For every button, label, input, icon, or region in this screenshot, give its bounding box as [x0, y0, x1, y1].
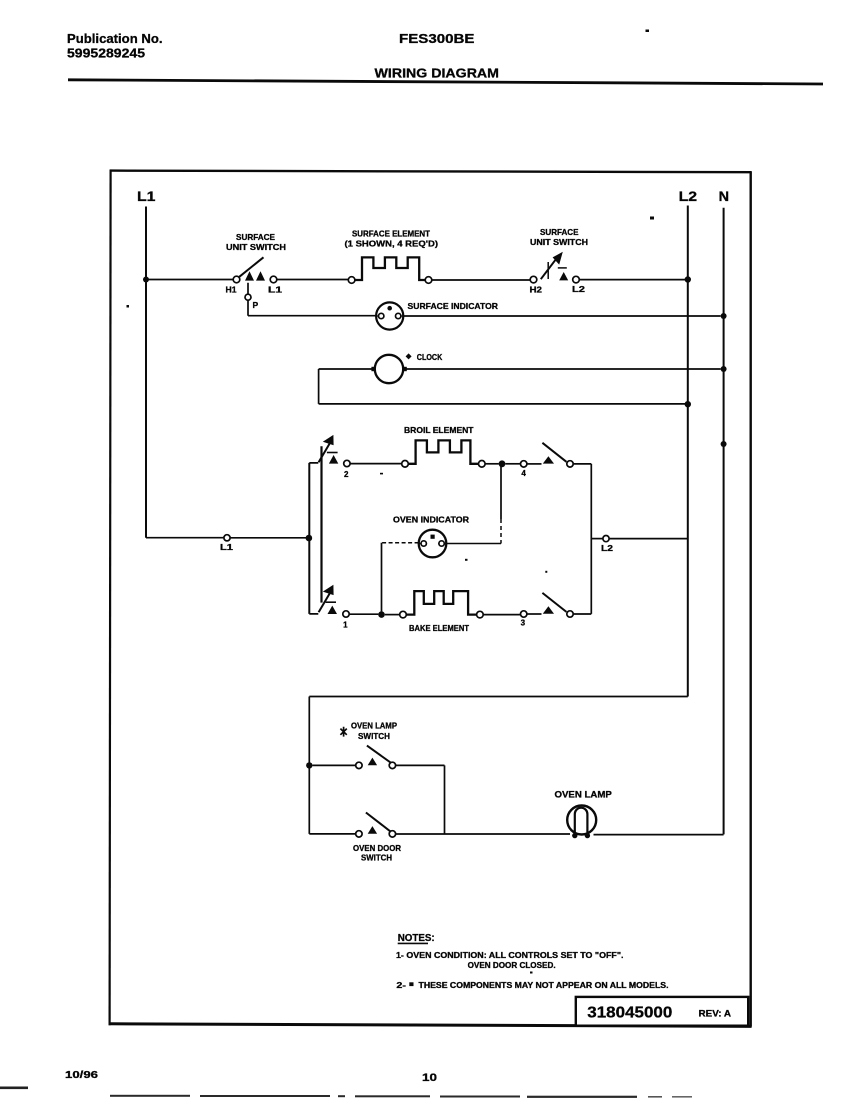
svg-text:Publication No.: Publication No.	[67, 31, 163, 46]
svg-text:10: 10	[422, 1072, 437, 1084]
svg-text:BAKE ELEMENT: BAKE ELEMENT	[409, 623, 470, 633]
svg-text:UNIT SWITCH: UNIT SWITCH	[530, 237, 588, 247]
svg-text:H1: H1	[226, 285, 238, 294]
svg-text:4: 4	[521, 469, 526, 478]
svg-text:FES300BE: FES300BE	[399, 31, 475, 46]
svg-text:L2: L2	[572, 285, 586, 294]
svg-text:CLOCK: CLOCK	[417, 352, 443, 362]
svg-text:318045000: 318045000	[587, 1005, 672, 1022]
svg-text:UNIT SWITCH: UNIT SWITCH	[226, 242, 286, 252]
svg-text:3: 3	[521, 619, 526, 628]
svg-text:L2: L2	[679, 189, 698, 204]
svg-text:2: 2	[344, 470, 349, 479]
svg-text:L1: L1	[220, 543, 234, 552]
svg-text:1: 1	[343, 620, 348, 629]
svg-text:OVEN DOOR: OVEN DOOR	[353, 843, 401, 853]
svg-text:SWITCH: SWITCH	[361, 853, 392, 863]
svg-text:BROIL ELEMENT: BROIL ELEMENT	[404, 425, 474, 435]
svg-text:SURFACE ELEMENT: SURFACE ELEMENT	[352, 228, 431, 238]
svg-text:SURFACE: SURFACE	[236, 232, 275, 242]
svg-text:REV: A: REV: A	[699, 1009, 732, 1019]
svg-text:N: N	[719, 189, 729, 204]
svg-text:SURFACE: SURFACE	[540, 227, 579, 237]
svg-text:1- OVEN CONDITION: ALL CONTROL: 1- OVEN CONDITION: ALL CONTROLS SET TO "…	[396, 951, 624, 960]
svg-text:SWITCH: SWITCH	[358, 731, 390, 741]
svg-text:OVEN DOOR CLOSED.: OVEN DOOR CLOSED.	[468, 961, 556, 970]
svg-text:L2: L2	[601, 544, 614, 553]
svg-text:L1: L1	[268, 285, 283, 294]
svg-text:SURFACE INDICATOR: SURFACE INDICATOR	[408, 301, 499, 311]
svg-text:10/96: 10/96	[65, 1070, 99, 1081]
svg-text:OVEN INDICATOR: OVEN INDICATOR	[393, 515, 469, 525]
svg-text:P: P	[253, 300, 259, 310]
svg-text:OVEN LAMP: OVEN LAMP	[351, 721, 397, 731]
svg-text:(1 SHOWN, 4 REQ'D): (1 SHOWN, 4 REQ'D)	[345, 238, 439, 248]
svg-text:WIRING DIAGRAM: WIRING DIAGRAM	[375, 66, 500, 81]
svg-text:NOTES:: NOTES:	[398, 932, 435, 944]
svg-text:5995289245: 5995289245	[67, 46, 145, 61]
svg-text:2-: 2-	[396, 981, 406, 990]
svg-text:THESE COMPONENTS MAY NOT APPEA: THESE COMPONENTS MAY NOT APPEAR ON ALL M…	[419, 981, 669, 990]
svg-text:L1: L1	[137, 189, 156, 204]
svg-text:H2: H2	[530, 285, 543, 294]
svg-text:OVEN LAMP: OVEN LAMP	[555, 790, 612, 800]
